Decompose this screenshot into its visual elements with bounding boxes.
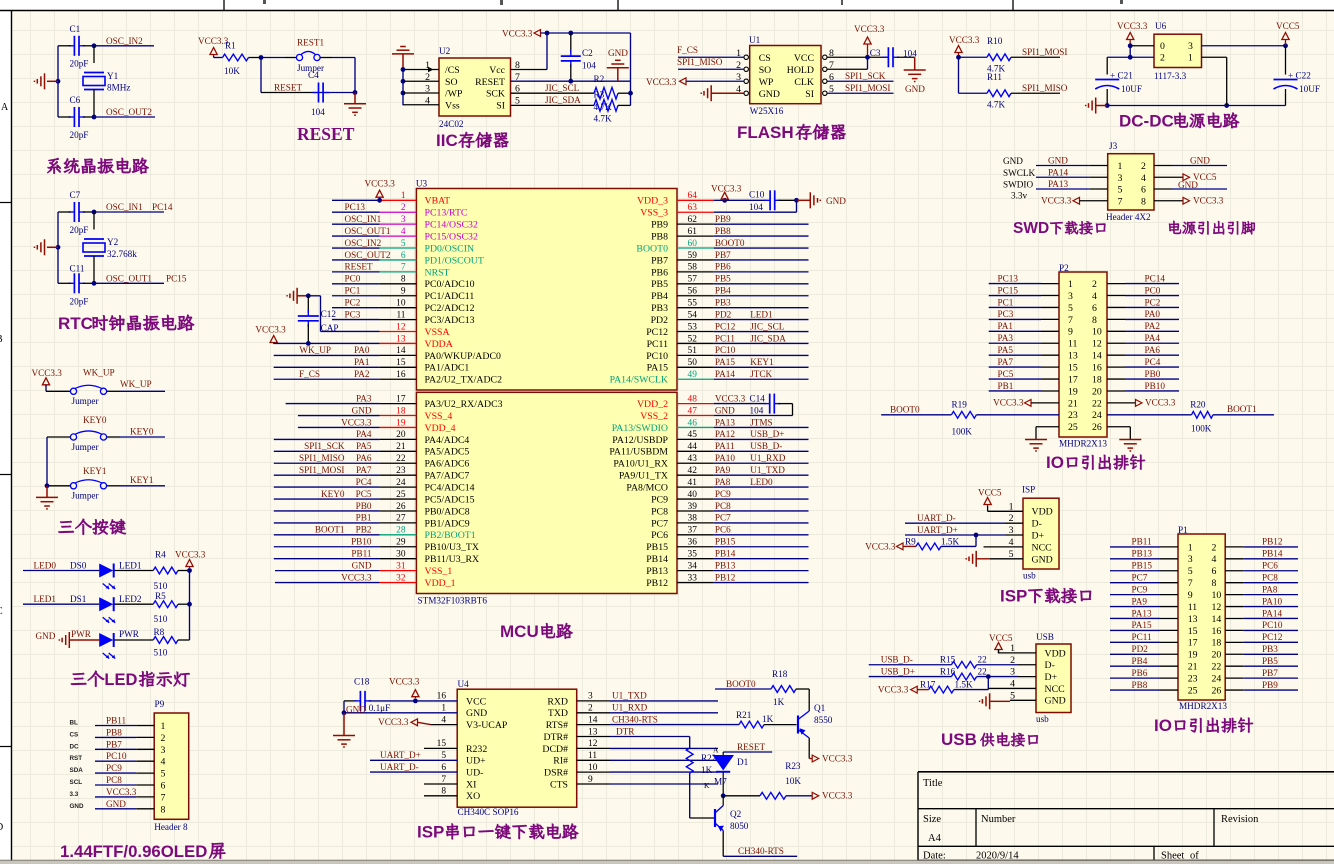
svg-text:PC3: PC3 (998, 309, 1014, 319)
wire U4 nc pin (577, 783, 610, 785)
wire UART_D- U4 (370, 771, 457, 773)
ground U6 (1105, 103, 1110, 108)
svg-text:PA13/SWDIO: PA13/SWDIO (612, 423, 668, 434)
wire U3 pin26 PB0 (274, 510, 380, 512)
wire OSC_IN1 PC14 (92, 210, 97, 215)
svg-text:Jumper: Jumper (72, 396, 99, 406)
pin U3-62 PB9 (677, 223, 714, 225)
svg-text:1K: 1K (701, 765, 713, 775)
svg-text:P9: P9 (155, 699, 165, 709)
pin U3-18 VSS_4 (380, 415, 417, 417)
wire U3 pin47 GND (714, 415, 793, 417)
svg-text:KEY1: KEY1 (750, 357, 774, 367)
svg-text:PA13: PA13 (1048, 179, 1068, 189)
svg-text:VCC3.3: VCC3.3 (378, 717, 409, 727)
svg-text:PC6: PC6 (715, 525, 731, 535)
wire ISP pin1 (988, 510, 1023, 512)
svg-text:R2: R2 (594, 74, 605, 84)
svg-text:GND: GND (1003, 156, 1023, 166)
svg-text:Size: Size (923, 814, 941, 825)
svg-text:PWR: PWR (119, 629, 140, 639)
wire P1 row13 right PB9 (1225, 689, 1243, 691)
svg-text:61: 61 (688, 227, 698, 237)
svg-text:10: 10 (396, 298, 406, 308)
svg-text:20: 20 (1092, 386, 1102, 397)
svg-text:VCC5: VCC5 (978, 488, 1002, 498)
wire U3 pin19 VCC3.3 (298, 426, 380, 428)
svg-text:104: 104 (750, 405, 764, 415)
svg-text:8050: 8050 (730, 821, 749, 831)
ground P2 right (1119, 439, 1141, 441)
svg-text:22: 22 (978, 655, 988, 665)
svg-text:VCC3.3: VCC3.3 (646, 77, 677, 87)
svg-text:3: 3 (1188, 554, 1193, 565)
ground C3 (914, 57, 916, 70)
svg-text:PB9: PB9 (651, 220, 668, 231)
svg-text:VCC3.3: VCC3.3 (1117, 21, 1148, 31)
svg-text:C6: C6 (70, 95, 81, 105)
svg-text:PC8: PC8 (1262, 572, 1278, 582)
svg-text:9: 9 (401, 287, 406, 297)
svg-text:GND: GND (608, 48, 628, 58)
svg-text:REST1: REST1 (297, 38, 324, 48)
svg-text:1: 1 (1068, 279, 1073, 290)
svg-text:DC-DC: DC-DC (1119, 112, 1174, 131)
svg-text:14: 14 (588, 715, 598, 725)
svg-text:C18: C18 (354, 677, 370, 687)
svg-text:VCC: VCC (794, 53, 814, 64)
svg-text:ISP: ISP (1000, 587, 1027, 606)
wire P2 row10 right PB10 (1107, 390, 1125, 392)
svg-text:25: 25 (1188, 685, 1198, 696)
svg-text:FLASH: FLASH (737, 123, 794, 142)
svg-text:USB_D+: USB_D+ (881, 666, 915, 676)
wire P2 row5 right PA2 (1107, 330, 1125, 332)
svg-text:VCC3.3: VCC3.3 (389, 677, 420, 687)
svg-text:PC0: PC0 (345, 274, 361, 284)
svg-text:PB0/ADC8: PB0/ADC8 (425, 506, 470, 517)
pin U3-7 NRST (380, 271, 417, 273)
wire P2 row8 right PC4 (1107, 366, 1125, 368)
svg-text:PB1: PB1 (998, 381, 1014, 391)
svg-text:LED: LED (104, 671, 137, 689)
svg-text:22: 22 (396, 454, 406, 464)
label system crystal title (47, 158, 60, 174)
svg-text:11: 11 (396, 310, 405, 320)
svg-text:20: 20 (396, 430, 406, 440)
svg-text:PA15: PA15 (647, 363, 669, 374)
pin P9-7 (95, 796, 136, 798)
wire U3 pin5 OSC_IN2 (332, 247, 380, 249)
power VCC3.3 P2 right (1107, 402, 1136, 404)
svg-text:JTMS: JTMS (750, 417, 772, 427)
wire U3 pin58 PB6 (714, 271, 809, 273)
svg-text:PC5: PC5 (356, 489, 372, 499)
svg-text:11: 11 (1068, 339, 1078, 350)
svg-text:18: 18 (1212, 638, 1222, 649)
svg-text:34: 34 (688, 561, 698, 571)
wire P2 row13 right gnd (1107, 426, 1130, 428)
svg-text:U1_TXD: U1_TXD (750, 465, 785, 475)
svg-text:14: 14 (1092, 351, 1102, 362)
svg-text:PB3: PB3 (1262, 644, 1278, 654)
wire U3 pin44 PA11 (714, 450, 809, 452)
pin U3-4 PC15/OSC32 (380, 235, 417, 237)
svg-text:VSSA: VSSA (425, 327, 450, 338)
svg-text:24C02: 24C02 (439, 119, 464, 129)
svg-text:6: 6 (441, 763, 446, 773)
svg-text:CS: CS (70, 731, 79, 738)
wire P1 row3 right PC6 (1225, 570, 1243, 572)
svg-text:KEY0: KEY0 (321, 489, 345, 499)
svg-text:PA9: PA9 (715, 465, 731, 475)
pin U3-21 PA5/ADC5 (380, 450, 417, 452)
svg-text:Vcc: Vcc (489, 65, 505, 76)
svg-text:13: 13 (588, 727, 598, 737)
wire U3 pin62 PB9 (714, 223, 809, 225)
svg-text:PC4: PC4 (1145, 357, 1161, 367)
label LEDs title (71, 673, 86, 685)
power VCC3.3 leds (187, 568, 192, 573)
svg-text:PA6/ADC6: PA6/ADC6 (425, 459, 470, 470)
svg-text:IO: IO (1046, 453, 1064, 472)
wire U3 pin59 PB7 (714, 259, 809, 261)
resistor R4 (115, 570, 154, 572)
svg-text:PB13: PB13 (646, 566, 668, 577)
wire P1 row4 left PC7 (1110, 582, 1160, 584)
wire F_CS PA2 (274, 378, 380, 380)
svg-text:PB11: PB11 (1132, 537, 1152, 547)
svg-text:PC13: PC13 (998, 273, 1019, 283)
svg-text:JIC_SDA: JIC_SDA (545, 95, 581, 105)
svg-text:MHDR2X13: MHDR2X13 (1179, 701, 1227, 711)
wire U3 pin24 PC4 (274, 486, 380, 488)
svg-text:PC9: PC9 (1132, 584, 1148, 594)
svg-text:DS0: DS0 (70, 561, 87, 571)
svg-text:PC8: PC8 (715, 501, 731, 511)
svg-text:19: 19 (1188, 650, 1198, 661)
svg-text:6: 6 (161, 781, 166, 792)
svg-text:55: 55 (688, 298, 698, 308)
pin U3-43 PA10/U1_RX (677, 462, 714, 464)
wire KEY1 (107, 485, 121, 487)
wire KEY0 (107, 436, 121, 438)
svg-text:0.1μF: 0.1μF (369, 703, 391, 713)
svg-text:PA15: PA15 (715, 357, 735, 367)
svg-text:R9: R9 (905, 537, 916, 547)
svg-text:25: 25 (1068, 422, 1078, 433)
svg-text:SWCLK: SWCLK (1003, 168, 1036, 178)
wire vcc leds vertical (189, 571, 191, 641)
svg-text:18: 18 (1092, 374, 1102, 385)
wire U3 pin11 PC3 (332, 319, 380, 321)
svg-text:PA13: PA13 (1132, 608, 1152, 618)
pin U4-15 (424, 747, 457, 749)
svg-text:100K: 100K (1191, 424, 1212, 434)
svg-text:PC0: PC0 (1145, 285, 1161, 295)
svg-text:PC13/RTC: PC13/RTC (425, 208, 468, 219)
svg-text:26: 26 (1212, 685, 1222, 696)
svg-text:CH340-RTS: CH340-RTS (738, 846, 784, 856)
svg-text:PC5: PC5 (998, 369, 1014, 379)
svg-text:VCC3.3: VCC3.3 (711, 183, 742, 193)
wire U3 pin63 VSS_3 (714, 211, 797, 213)
svg-text:R232: R232 (466, 744, 487, 755)
svg-text:8: 8 (1092, 315, 1097, 326)
svg-text:usb: usb (1036, 714, 1049, 724)
svg-text:RTS#: RTS# (546, 720, 568, 731)
svg-text:10: 10 (588, 763, 598, 773)
svg-text:PC15: PC15 (166, 273, 187, 283)
svg-text:PC0/ADC10: PC0/ADC10 (425, 279, 475, 290)
wire PA1 (274, 366, 380, 368)
svg-text:7: 7 (441, 775, 446, 785)
svg-text:20pF: 20pF (70, 225, 89, 235)
svg-text:C14: C14 (750, 393, 766, 403)
svg-text:U1_RXD: U1_RXD (612, 703, 648, 713)
pin U3-26 PB0/ADC8 (380, 510, 417, 512)
svg-text:VCC3.3: VCC3.3 (822, 753, 853, 763)
svg-text:C10: C10 (749, 190, 765, 200)
wire OSC_IN2 (92, 43, 97, 48)
svg-text:32: 32 (396, 573, 406, 583)
svg-text:usb: usb (1023, 571, 1036, 581)
svg-text:Number: Number (981, 814, 1016, 825)
svg-text:XI: XI (466, 779, 476, 790)
wire USB pin1 (998, 650, 1000, 653)
svg-text:R5: R5 (155, 591, 166, 601)
svg-text:PC7: PC7 (651, 518, 668, 529)
wire U3 pin4 OSC_OUT1 (332, 235, 380, 237)
svg-text:BOOT0: BOOT0 (636, 243, 668, 254)
wire U3 pin21 PA5 (274, 450, 380, 452)
svg-text:RXD: RXD (547, 696, 568, 707)
wire U2 pin7 RESET (511, 80, 631, 82)
svg-text:VDD_1: VDD_1 (425, 578, 456, 589)
svg-text:17: 17 (1068, 374, 1078, 385)
pin P9-4 (95, 760, 136, 762)
svg-text:U6: U6 (1155, 21, 1167, 31)
svg-text:VCC3.3: VCC3.3 (502, 29, 533, 39)
pin U3-51 PC10 (677, 354, 714, 356)
svg-text:14: 14 (396, 346, 406, 356)
svg-text:PB2: PB2 (356, 525, 372, 535)
wire P2 row1 right PC14 (1107, 283, 1125, 285)
svg-text:PA3: PA3 (998, 333, 1014, 343)
svg-text:VDDA: VDDA (425, 339, 453, 350)
svg-text:JIC_SCL: JIC_SCL (545, 83, 580, 93)
svg-text:4: 4 (401, 227, 406, 237)
resistor R16 (951, 673, 976, 680)
svg-text:22: 22 (978, 666, 988, 676)
svg-text:29: 29 (396, 538, 406, 548)
pin U3-58 PB6 (677, 271, 714, 273)
wire J3 row 3 right (1154, 188, 1172, 190)
svg-text:24: 24 (1212, 674, 1222, 685)
svg-text:PA8: PA8 (1262, 584, 1278, 594)
ground C12 (296, 288, 298, 304)
svg-text:PB8: PB8 (651, 231, 668, 242)
wire U3 pin38 PC7 (714, 522, 809, 524)
svg-text:R18: R18 (772, 669, 788, 679)
svg-text:VCC3.3: VCC3.3 (1193, 195, 1224, 205)
svg-text:SWD: SWD (1013, 220, 1049, 237)
svg-text:RESET: RESET (345, 262, 373, 272)
svg-text:IIC: IIC (436, 131, 458, 150)
svg-text:PB8: PB8 (106, 727, 122, 737)
wire U3 pin2 PC13 (332, 211, 380, 213)
svg-text:9: 9 (1188, 590, 1193, 601)
svg-text:Vss: Vss (445, 100, 460, 111)
svg-text:4: 4 (441, 715, 446, 725)
svg-text:KEY0: KEY0 (130, 427, 154, 437)
svg-text:SPI1_SCK: SPI1_SCK (304, 441, 345, 451)
svg-text:PC3/ADC13: PC3/ADC13 (425, 315, 475, 326)
svg-text:35: 35 (688, 549, 698, 559)
svg-text:OSC_IN2: OSC_IN2 (345, 238, 382, 248)
svg-text:PA4: PA4 (356, 429, 372, 439)
svg-text:PB4: PB4 (651, 291, 668, 302)
svg-text:VCC5: VCC5 (989, 633, 1013, 643)
svg-text:PC11: PC11 (1132, 632, 1152, 642)
svg-text:SO: SO (445, 77, 458, 88)
svg-text:1: 1 (161, 721, 166, 732)
svg-text:4: 4 (1092, 291, 1097, 302)
svg-text:PA13: PA13 (715, 417, 735, 427)
svg-text:4: 4 (1141, 173, 1146, 184)
LED DS0 (99, 564, 113, 578)
wire P1 row9 right PC12 (1225, 641, 1243, 643)
svg-text:R8: R8 (154, 627, 165, 637)
pin P9-1 (95, 725, 136, 727)
svg-text:PB14: PB14 (715, 548, 736, 558)
svg-text:R16: R16 (940, 666, 956, 676)
svg-text:53: 53 (688, 322, 698, 332)
scrollbar (0, 861, 1334, 864)
svg-text:PB14: PB14 (1262, 549, 1283, 559)
svg-text:UD+: UD+ (466, 756, 486, 767)
wire P2 row3 right PC2 (1107, 306, 1125, 308)
svg-text:VBAT: VBAT (425, 196, 451, 207)
pin U3-44 PA11/USBDM (677, 450, 714, 452)
svg-text:RTC: RTC (58, 314, 93, 333)
wire U3 pin27 PB1 (274, 522, 380, 524)
svg-text:UD-: UD- (466, 768, 483, 779)
pin U3-27 PB1/ADC9 (380, 522, 417, 524)
wire U3 pin25 PC5 (274, 498, 380, 500)
svg-text:PC9: PC9 (715, 489, 731, 499)
svg-text:50: 50 (688, 358, 698, 368)
svg-text:20pF: 20pF (70, 297, 89, 307)
svg-text:D1: D1 (737, 757, 749, 767)
wire U3 pin29 PB10 (274, 546, 380, 548)
svg-text:VCC3.3: VCC3.3 (255, 325, 286, 335)
svg-text:5: 5 (401, 239, 406, 249)
svg-text:18: 18 (396, 406, 406, 416)
wire U3 pin9 PC1 (332, 295, 380, 297)
svg-text:PB2/BOOT1: PB2/BOOT1 (425, 530, 476, 541)
svg-text:PB15: PB15 (715, 537, 736, 547)
svg-text:SPI1_MOSI: SPI1_MOSI (1022, 47, 1067, 57)
ground P2 left (1025, 439, 1047, 441)
pin U3-35 PB14 (677, 558, 714, 560)
svg-text:RESET: RESET (475, 77, 505, 88)
svg-text:SPI1_MISO: SPI1_MISO (677, 57, 723, 67)
wire OSC_OUT2 (92, 115, 97, 120)
wire P2 row7 right PA6 (1107, 354, 1125, 356)
pin U3-1 VBAT (380, 199, 417, 201)
svg-text:PC10: PC10 (646, 351, 668, 362)
svg-text:GND: GND (715, 405, 735, 415)
svg-text:28: 28 (396, 526, 406, 536)
svg-text:PC3: PC3 (345, 309, 361, 319)
svg-text:PC13: PC13 (345, 202, 366, 212)
wire U3 pin32 VCC3.3 (275, 582, 380, 584)
svg-text:PA4: PA4 (1145, 333, 1161, 343)
svg-text:49: 49 (688, 370, 698, 380)
wire CH340-RTS (577, 724, 610, 726)
svg-text:21: 21 (1188, 662, 1198, 673)
svg-text:NCC: NCC (1032, 542, 1052, 553)
wire vcc right rail U2 (630, 33, 632, 105)
svg-text:VSS_3: VSS_3 (640, 208, 668, 219)
svg-text:26: 26 (396, 502, 406, 512)
svg-text:32.768k: 32.768k (107, 249, 137, 259)
svg-text:PC14: PC14 (1145, 273, 1166, 283)
svg-text:K: K (704, 781, 710, 790)
svg-text:RESET: RESET (737, 742, 765, 752)
svg-text:WK_UP: WK_UP (120, 379, 152, 389)
wire P1 row5 right PA8 (1225, 594, 1243, 596)
svg-text:USB: USB (941, 730, 977, 749)
svg-text:Jumper: Jumper (72, 442, 99, 452)
pin P9-3 (95, 748, 136, 750)
svg-text:PB0: PB0 (1145, 369, 1161, 379)
wire WK_UP PA0 (274, 354, 380, 356)
wire U4 nc pin (577, 759, 610, 761)
svg-text:1117-3.3: 1117-3.3 (1154, 71, 1187, 81)
svg-text:DS1: DS1 (70, 594, 87, 604)
svg-text:PB6: PB6 (651, 267, 668, 278)
pin U3-32 VDD_1 (380, 582, 417, 584)
svg-text:RI#: RI# (553, 756, 568, 767)
pin U3-60 BOOT0 (677, 247, 714, 249)
svg-text:RST: RST (70, 755, 83, 762)
svg-text:12: 12 (1092, 339, 1102, 350)
pin U3-29 PB10/U3_TX (380, 546, 417, 548)
svg-text:PB1: PB1 (356, 513, 372, 523)
svg-text:54: 54 (688, 310, 698, 320)
svg-text:56: 56 (688, 287, 698, 297)
svg-text:SPI1_MOSI: SPI1_MOSI (299, 465, 344, 475)
wire P1 row11 left PB4 (1110, 665, 1160, 667)
svg-text:3.3: 3.3 (70, 791, 79, 798)
svg-text:PB6: PB6 (715, 262, 731, 272)
svg-text:OSC_IN1: OSC_IN1 (106, 202, 143, 212)
svg-text:C7: C7 (70, 190, 81, 200)
svg-text:8: 8 (1141, 196, 1146, 207)
wire U3 pin48 C14 (714, 403, 766, 405)
title block frame (918, 771, 1334, 773)
wire P2 row4 left PC3 (989, 318, 1041, 320)
svg-text:10: 10 (1212, 590, 1222, 601)
svg-text:1.44FTF/0.96OLED: 1.44FTF/0.96OLED (60, 842, 207, 861)
pin U3-52 PC11 (677, 342, 714, 344)
pin U3-3 PC14/OSC32 (380, 223, 417, 225)
svg-text:PC14/OSC32: PC14/OSC32 (425, 220, 478, 231)
wire LED1 (23, 603, 99, 605)
svg-text:PD2: PD2 (715, 309, 732, 319)
